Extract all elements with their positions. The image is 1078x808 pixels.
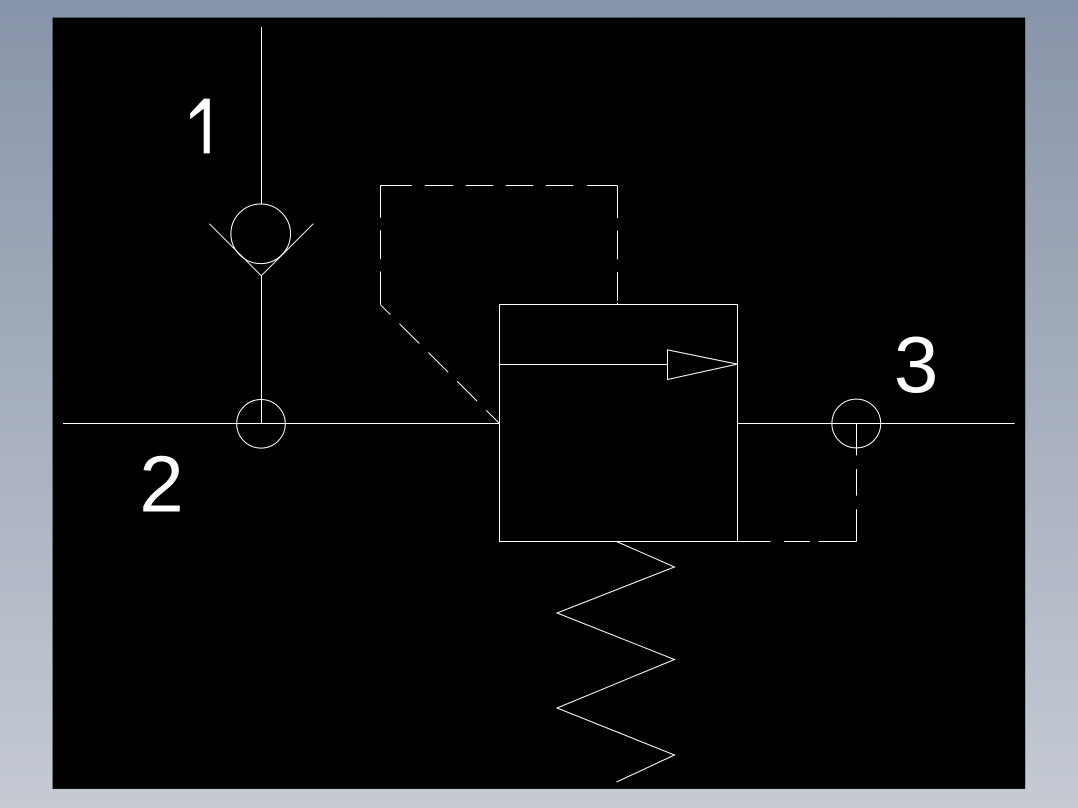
flow arrow shaft: [500, 364, 668, 366]
label: port number 1: [190, 99, 210, 154]
svg-text:3: 3: [894, 320, 939, 409]
pilot line (dashed): node 3 drop: [856, 424, 858, 542]
pilot line (dashed): left vertical riser: [380, 185, 382, 305]
check valve V1 seat left arm: [209, 224, 261, 276]
flow arrow head: [668, 350, 738, 380]
pilot line (dashed): bottom run to valve body corner: [737, 541, 857, 543]
pilot line (dashed): right vertical drop to valve body: [617, 186, 619, 305]
check valve V1 seat right arm: [261, 224, 313, 276]
wire: main line right segment (port 3): [737, 423, 1015, 425]
check valve V1 circle (poppet): [231, 204, 291, 264]
wire: port 1 vertical line: [261, 27, 263, 204]
pilot line (dashed): top horizontal run: [381, 185, 618, 187]
wire: check valve to node 2: [261, 276, 263, 424]
node 2 port circle: [237, 400, 286, 449]
valve body (square): [500, 305, 738, 542]
wire: main line left segment (port 2): [63, 423, 500, 425]
pilot line (dashed): diagonal to main line at valve body corner: [381, 305, 500, 424]
svg-text:2: 2: [139, 439, 184, 528]
spring (zigzag): [557, 542, 675, 783]
node 3 port circle: [832, 399, 881, 448]
